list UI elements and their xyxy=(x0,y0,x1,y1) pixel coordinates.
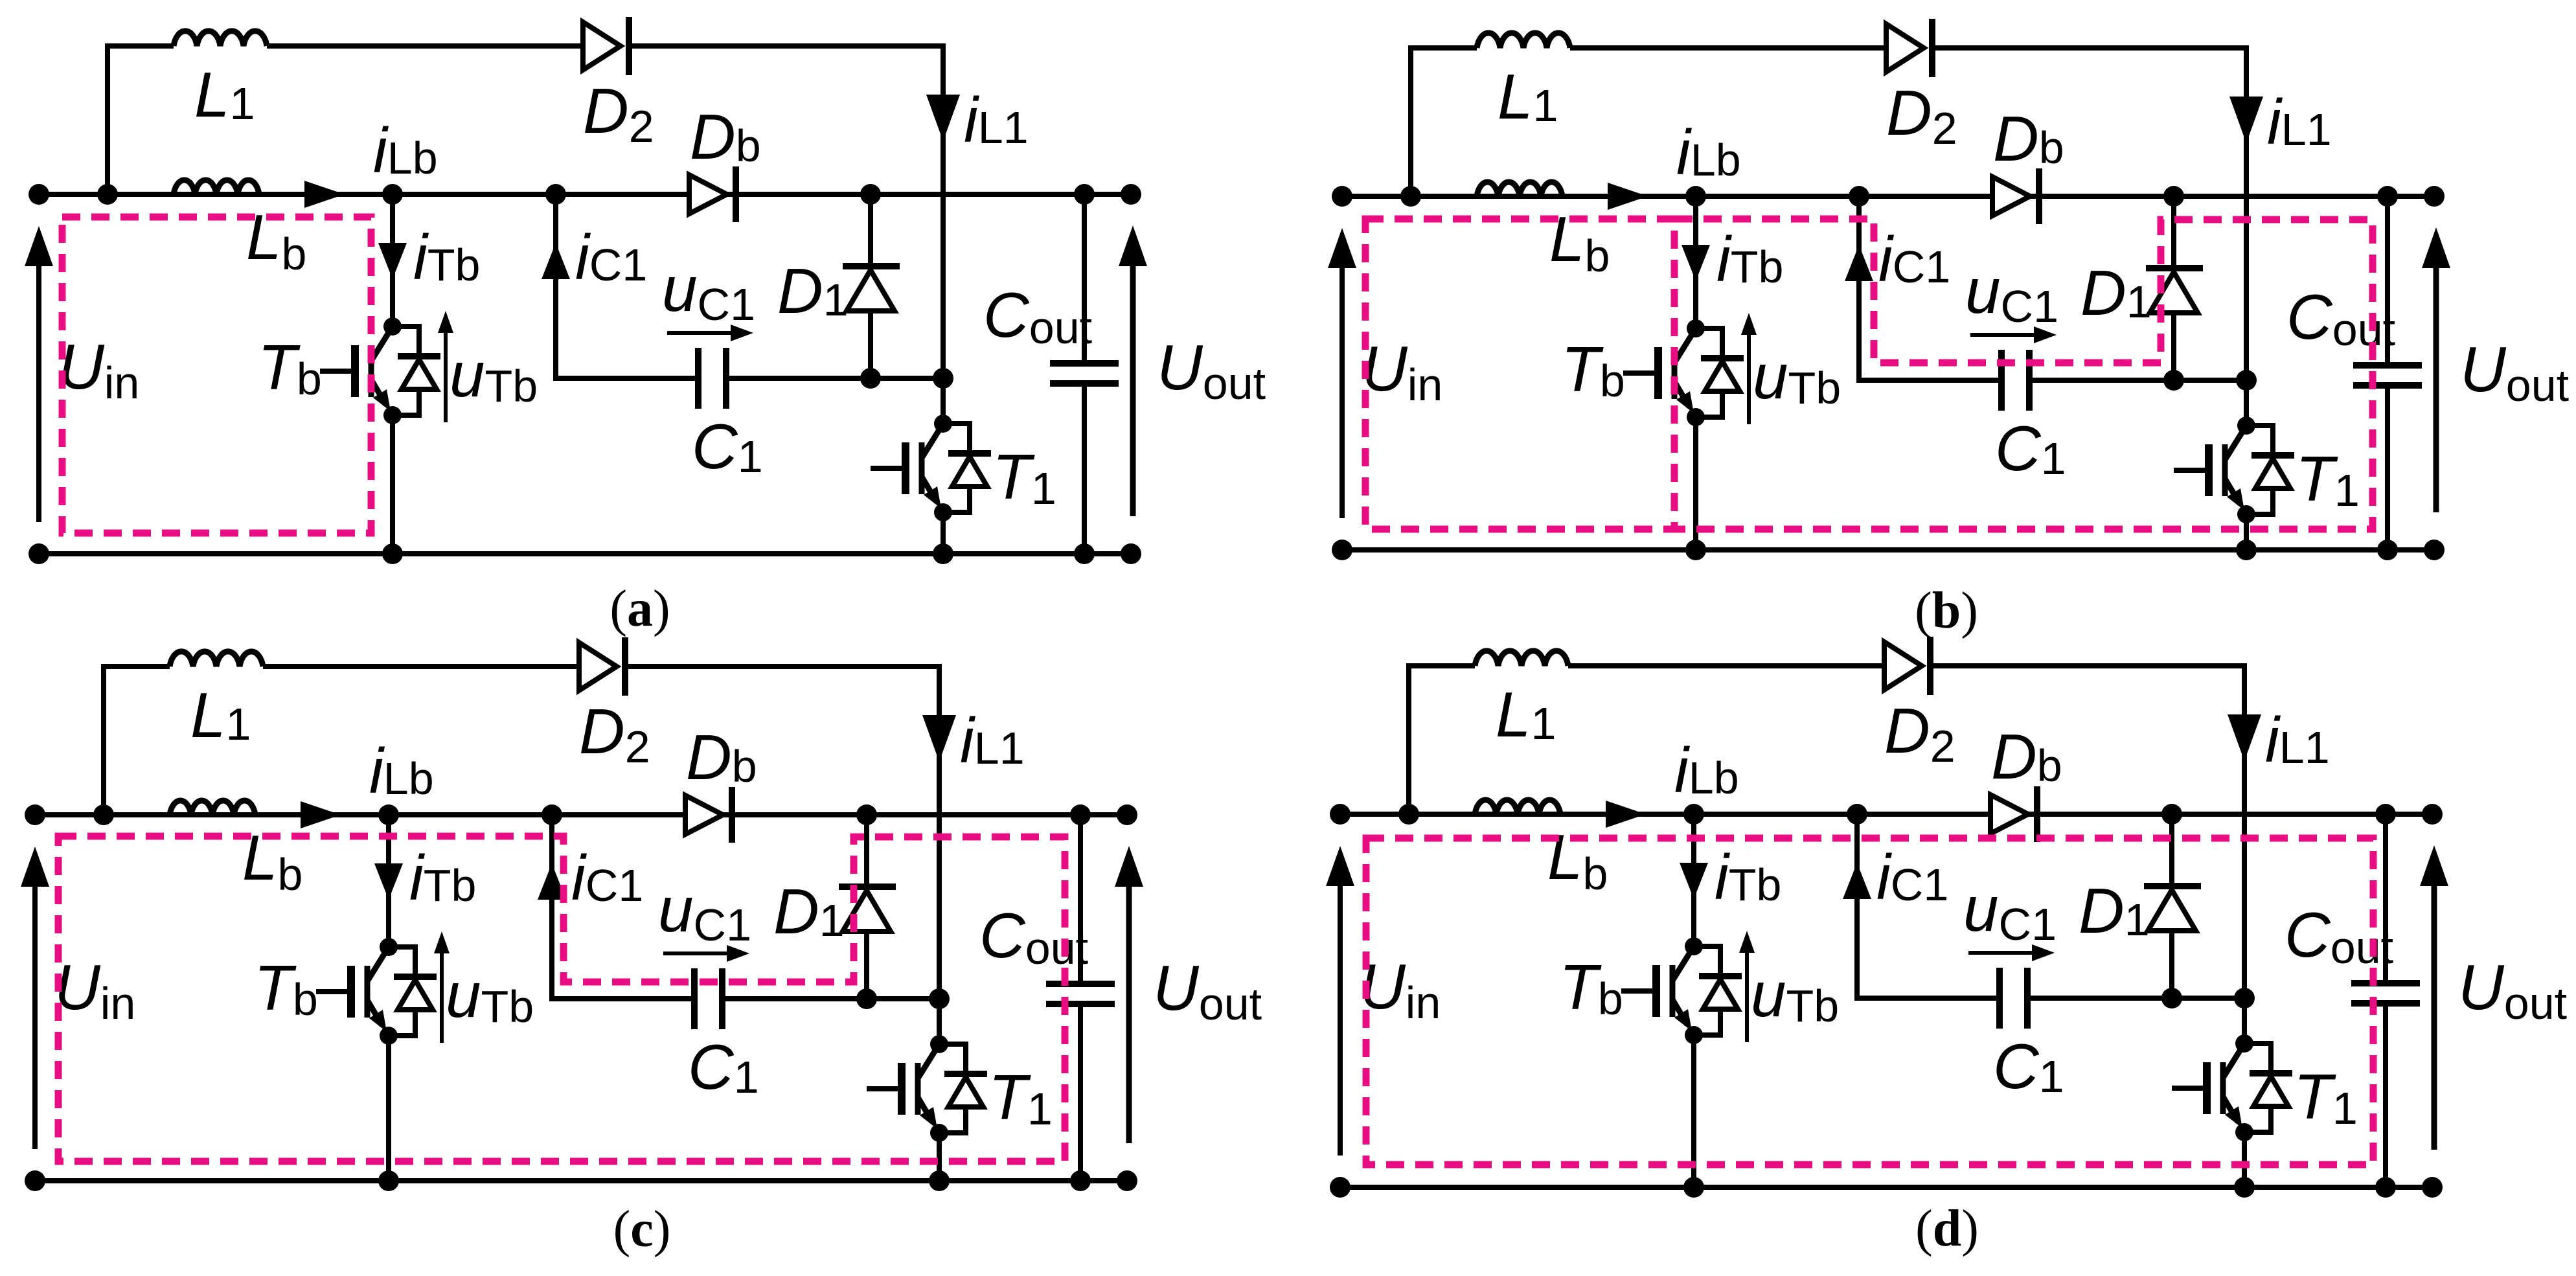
(a) pink loop: input loop Uin-Lb-Tb xyxy=(62,217,371,533)
(c) transistor T1 gate bar xyxy=(898,1063,906,1115)
(b) transistor T1 gate bar xyxy=(2205,444,2213,496)
svg-text:(b): (b) xyxy=(1915,582,1978,639)
(a) transistor Tb antiparallel diode wiring xyxy=(393,326,419,356)
(b) transistor Tb gate lead xyxy=(1623,370,1658,376)
(a) transistor Tb emitter stroke with arrow xyxy=(371,380,386,405)
(d) transistor Tb emitter stroke with arrow xyxy=(1672,999,1687,1025)
(b) transistor T1 gate lead xyxy=(2174,468,2209,473)
svg-text:(a): (a) xyxy=(610,580,670,637)
(d) capacitor Cout xyxy=(2351,980,2420,986)
(d) diode D2 xyxy=(1927,637,1933,695)
(d) transistor T1 collector node xyxy=(2235,1034,2253,1053)
svg-text:(c): (c) xyxy=(613,1201,671,1258)
(c) arrow i_C1 xyxy=(538,863,566,900)
(d) transistor T1 emitter node xyxy=(2235,1123,2253,1141)
(c) transistor Tb emitter node xyxy=(380,1027,398,1045)
(a) inductor Lb xyxy=(174,180,259,194)
(b) voltage arrow u_C1 xyxy=(1970,333,2047,337)
(b) load arrow U_out xyxy=(2434,268,2439,512)
(b) diode D1 xyxy=(2146,265,2203,271)
(a) transistor Tb antiparallel diode cathode bar xyxy=(398,353,440,359)
(d) arrow i_Tb xyxy=(1680,863,1708,899)
(d) diode Db xyxy=(2034,786,2040,842)
(b) diode Db xyxy=(2036,168,2042,224)
(b) pink loop: Tb-C1-D1-T1-Cout loop xyxy=(1674,219,2373,529)
(d) transistor Tb gate lead xyxy=(1621,988,1656,994)
(b) inductor Lb xyxy=(1477,182,1562,196)
(c) transistor T1 antiparallel diode triangle xyxy=(948,1077,983,1107)
(b) transistor T1 emitter node xyxy=(2237,505,2255,523)
(b) wire: D1 branch xyxy=(2171,196,2176,380)
(a) arrow i_Lb xyxy=(304,181,345,208)
(a) transistor T1 antiparallel diode wiring xyxy=(943,424,970,453)
(d) junction dots xyxy=(1330,804,1351,825)
(b) capacitor C1 xyxy=(1998,350,2005,411)
(c) wire: top branch with L1 and D2 xyxy=(104,666,170,815)
(b) bottom rail wire xyxy=(1342,547,2434,553)
(c) wire: right terminal stub xyxy=(1080,812,1127,817)
(b) source arrow U_in xyxy=(1339,268,1345,518)
(c) diode D2 xyxy=(622,637,628,696)
(c) source arrow U_in xyxy=(32,886,38,1149)
(a) arrow i_Tb xyxy=(378,243,407,279)
(c) transistor T1 collector stroke xyxy=(918,1044,939,1078)
(b) transistor Tb body bar xyxy=(1672,347,1678,399)
(c) transistor Tb gate lead xyxy=(316,989,351,994)
(d) arrow i_Lb xyxy=(1606,801,1646,828)
(c) transistor Tb body bar xyxy=(365,966,370,1018)
(a) transistor T1 antiparallel diode cathode bar xyxy=(948,450,991,457)
(d) load arrow U_out xyxy=(2432,885,2437,1150)
(b) transistor T1 collector node xyxy=(2237,416,2255,435)
(a) wire: T1 branch xyxy=(940,192,946,424)
(c) wire: D2 to i_L1 branch corner xyxy=(625,666,939,812)
(a) transistor Tb emitter node xyxy=(383,406,402,424)
(c) transistor Tb antiparallel diode wiring xyxy=(389,947,415,977)
(b) wire: top branch with L1 and D2 xyxy=(1411,48,1477,196)
(d) wire: Cout branch xyxy=(2383,814,2388,983)
(a) wire: L1 to D2 xyxy=(267,43,584,49)
(b) transistor Tb collector stroke xyxy=(1674,328,1696,363)
(a) wire: top branch with L1 and D2 xyxy=(108,46,174,194)
(c) transistor T1 collector node xyxy=(930,1035,948,1053)
(a) diode D2 xyxy=(626,17,632,75)
(a) load arrow U_out xyxy=(1130,266,1136,516)
(c) wire: L1 to D2 xyxy=(263,664,580,669)
(a) transistor Tb antiparallel diode triangle xyxy=(402,359,437,389)
(b) transistor Tb antiparallel diode triangle xyxy=(1705,361,1740,391)
(b) wire: D2 to i_L1 branch corner xyxy=(1932,48,2246,194)
(d) wire: D1 branch xyxy=(2169,814,2174,998)
(b) transistor T1 emitter stroke with arrow xyxy=(2225,479,2240,504)
(c) transistor Tb collector stroke xyxy=(367,947,389,981)
(d) wire: top branch with L1 and D2 xyxy=(1409,666,1475,814)
(b) pink loop: input loop Uin-Lb-Tb xyxy=(1365,219,1674,529)
(c) transistor Tb antiparallel diode cathode bar xyxy=(394,974,437,980)
(a) diode Db xyxy=(733,166,739,222)
(a) bottom rail wire xyxy=(39,551,1131,556)
(d) transistor Tb emitter node xyxy=(1685,1026,1703,1044)
(c) transistor T1 body bar xyxy=(915,1063,921,1115)
(c) transistor T1 gate lead xyxy=(867,1086,902,1091)
(d) transistor T1 emitter stroke with arrow xyxy=(2223,1097,2238,1122)
(a) wire: Cout branch xyxy=(1082,194,1087,363)
(a) voltage arrow u_C1 xyxy=(667,331,744,335)
(a) voltage arrow u_Tb xyxy=(444,319,448,422)
(d) wire: Tb branch xyxy=(1691,814,1696,947)
(c) bottom rail wire xyxy=(35,1178,1127,1183)
(b) capacitor Cout xyxy=(2353,362,2422,369)
(a) wire: C1 to T1 branch xyxy=(726,376,943,381)
(a) wire: i_C1 branch xyxy=(556,194,698,378)
(c) wire: Cout branch xyxy=(1078,815,1083,984)
(c) transistor T1 antiparallel diode wiring xyxy=(939,1044,966,1074)
(d) transistor Tb collector stroke xyxy=(1672,946,1694,981)
(d) arrow i_L1 xyxy=(2228,714,2261,761)
(c) diode Db xyxy=(729,787,735,843)
(c) inductor Lb xyxy=(170,801,255,815)
(d) wire: right terminal stub xyxy=(2386,812,2432,817)
(a) transistor T1 emitter node xyxy=(934,503,952,521)
(b) transistor T1 antiparallel diode cathode bar xyxy=(2251,452,2294,459)
(c) wire: i_C1 branch xyxy=(552,815,694,999)
(c) main rail wire xyxy=(35,812,1127,817)
svg-text:(d): (d) xyxy=(1915,1200,1979,1257)
(c) inductor L1 xyxy=(170,652,263,666)
(a) wire: Tb branch xyxy=(390,194,395,327)
(c) transistor Tb antiparallel diode triangle xyxy=(398,980,433,1010)
(b) transistor Tb collector node xyxy=(1687,319,1705,337)
(d) wire: i_C1 branch xyxy=(1857,814,2000,998)
(c) load arrow U_out xyxy=(1126,886,1132,1143)
(d) voltage arrow u_Tb xyxy=(1745,939,1749,1042)
(a) transistor T1 gate lead xyxy=(871,466,906,471)
(a) transistor T1 collector stroke xyxy=(922,424,943,458)
(d) transistor Tb body bar xyxy=(1670,965,1676,1017)
(a) transistor T1 emitter stroke with arrow xyxy=(922,477,937,502)
(b) wire: L1 to D2 xyxy=(1570,45,1887,51)
(a) wire: right terminal stub xyxy=(1084,192,1131,197)
(d) wire: T1 branch xyxy=(2242,812,2247,1044)
(a) inductor L1 xyxy=(174,31,267,46)
(a) transistor Tb collector node xyxy=(383,317,402,336)
(a) transistor T1 body bar xyxy=(919,442,925,494)
(a) diode D1 xyxy=(843,263,900,269)
(b) transistor T1 antiparallel diode wiring xyxy=(2246,426,2273,455)
(b) arrow i_Lb xyxy=(1608,183,1648,210)
(d) transistor T1 collector stroke xyxy=(2223,1043,2244,1078)
(d) pink loop: full converter loop xyxy=(1366,838,2373,1165)
(d) transistor T1 antiparallel diode cathode bar xyxy=(2250,1070,2292,1077)
(c) transistor T1 emitter stroke with arrow xyxy=(918,1097,933,1122)
(a) capacitor C1 xyxy=(695,348,701,409)
(b) transistor T1 antiparallel diode triangle xyxy=(2255,459,2290,488)
(d) bottom rail wire xyxy=(1340,1185,2432,1190)
(a) transistor T1 gate bar xyxy=(902,442,909,494)
(a) arrow i_C1 xyxy=(541,243,570,279)
(d) transistor Tb antiparallel diode wiring xyxy=(1694,946,1720,976)
(b) arrow i_Tb xyxy=(1681,245,1710,281)
(b) transistor Tb antiparallel diode cathode bar xyxy=(1701,355,1744,361)
(d) capacitor C1 xyxy=(1996,968,2003,1029)
(d) arrow i_C1 xyxy=(1843,863,1871,899)
(c) wire: T1 branch xyxy=(937,812,942,1045)
(b) wire: C1 to T1 branch xyxy=(2029,378,2246,383)
(b) wire: i_C1 branch xyxy=(1859,196,2001,380)
(d) voltage arrow u_C1 xyxy=(1968,951,2045,955)
(c) transistor Tb collector node xyxy=(380,938,398,956)
(c) voltage arrow u_Tb xyxy=(440,939,444,1043)
(a) transistor T1 antiparallel diode triangle xyxy=(952,457,987,486)
(d) transistor Tb antiparallel diode cathode bar xyxy=(1699,973,1742,979)
(b) main rail wire xyxy=(1342,194,2434,199)
(b) transistor Tb antiparallel diode wiring xyxy=(1696,328,1722,358)
(d) transistor T1 gate lead xyxy=(2172,1086,2207,1091)
(c) pink loop: Uin-Lb-C1-D1-T1-Cout loop xyxy=(58,836,1065,1161)
(b) arrow i_C1 xyxy=(1845,245,1873,281)
(c) wire: D1 branch xyxy=(864,815,869,999)
(c) transistor Tb emitter stroke with arrow xyxy=(367,1000,382,1025)
(d) inductor L1 xyxy=(1475,651,1568,666)
(c) arrow i_Tb xyxy=(374,863,403,900)
(c) transistor T1 antiparallel diode cathode bar xyxy=(944,1071,987,1077)
(c) voltage arrow u_C1 xyxy=(663,951,740,955)
(c) wire: C1 to T1 branch xyxy=(722,996,939,1001)
(c) arrow i_Lb xyxy=(301,801,341,828)
(a) wire: D2 to i_L1 branch corner xyxy=(629,46,943,192)
(c) transistor Tb gate bar xyxy=(347,966,355,1018)
(c) wire: Tb branch xyxy=(386,815,391,948)
(a) transistor Tb collector stroke xyxy=(371,326,393,361)
(a) transistor T1 collector node xyxy=(934,415,952,433)
(b) transistor T1 body bar xyxy=(2222,444,2228,496)
(d) transistor T1 antiparallel diode wiring xyxy=(2244,1043,2271,1073)
(b) transistor Tb emitter node xyxy=(1687,408,1705,426)
(d) transistor Tb gate bar xyxy=(1652,965,1660,1017)
(c) junction dots xyxy=(25,804,45,825)
(d) wire: D2 to i_L1 branch corner xyxy=(1930,666,2244,812)
(d) transistor Tb antiparallel diode triangle xyxy=(1703,979,1738,1009)
(b) transistor T1 collector stroke xyxy=(2225,426,2246,460)
(b) wire: Tb branch xyxy=(1693,196,1698,329)
(b) arrow i_L1 xyxy=(2229,97,2263,143)
(d) transistor T1 body bar xyxy=(2220,1062,2226,1114)
(d) diode D1 xyxy=(2144,883,2201,889)
(a) main rail wire xyxy=(39,192,1131,197)
(a) transistor Tb gate bar xyxy=(351,345,359,397)
(b) wire: T1 branch xyxy=(2244,194,2249,426)
(a) source arrow U_in xyxy=(36,266,41,522)
(b) transistor Tb emitter stroke with arrow xyxy=(1674,382,1689,407)
(d) inductor Lb xyxy=(1475,800,1560,814)
(d) transistor Tb collector node xyxy=(1685,937,1703,955)
(a) arrow i_L1 xyxy=(926,95,960,141)
(d) main rail wire xyxy=(1340,812,2432,817)
(c) arrow i_L1 xyxy=(922,715,956,762)
(c) diode D1 xyxy=(839,883,896,890)
(b) wire: Cout branch xyxy=(2385,196,2390,365)
(d) wire: C1 to T1 branch xyxy=(2027,996,2244,1001)
(b) transistor Tb gate bar xyxy=(1654,347,1662,399)
(d) transistor T1 antiparallel diode triangle xyxy=(2253,1077,2288,1106)
(b) junction dots xyxy=(1332,186,1352,207)
(c) capacitor C1 xyxy=(691,968,698,1029)
(a) transistor Tb gate lead xyxy=(320,369,355,374)
(a) junction dots xyxy=(28,184,49,205)
(b) inductor L1 xyxy=(1477,33,1570,48)
(a) transistor Tb body bar xyxy=(369,345,374,397)
(d) source arrow U_in xyxy=(1338,885,1343,1156)
(a) wire: D1 branch xyxy=(868,194,873,378)
(c) capacitor Cout xyxy=(1046,981,1115,987)
(b) wire: right terminal stub xyxy=(2388,194,2434,199)
(c) transistor T1 emitter node xyxy=(930,1124,948,1142)
(d) wire: L1 to D2 xyxy=(1568,663,1886,668)
(a) capacitor Cout xyxy=(1050,360,1119,367)
(b) diode D2 xyxy=(1929,19,1935,77)
(b) voltage arrow u_Tb xyxy=(1747,321,1751,424)
(d) transistor T1 gate bar xyxy=(2203,1062,2211,1114)
